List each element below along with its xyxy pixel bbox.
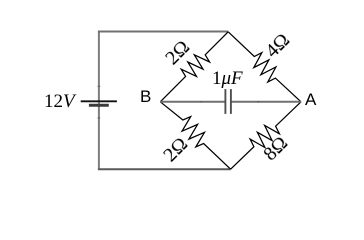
wire left rail vertical [98, 31, 100, 169]
capacitor C1 left plate [224, 89, 226, 114]
label 2ohm (resistor R3 value) [159, 133, 193, 167]
wire junction dot right bridge wire [258, 101, 260, 103]
resistor R2 4ohm (top node to A) [228, 32, 301, 102]
wire junction dot left bridge wire [201, 101, 203, 103]
wire junction tick upper battery lead [98, 85, 101, 87]
wire top horizontal [98, 31, 228, 33]
capacitor C1 right plate [230, 89, 232, 114]
battery V1 top plate (long) [81, 100, 117, 102]
label 1uF (capacitor value) [212, 68, 243, 90]
battery V1 bottom plate (short thick) [89, 104, 109, 107]
resistor R4 8ohm (bottom node to A) [231, 102, 301, 169]
label 2ohm (resistor R1 value) [161, 36, 195, 70]
wire B to capacitor [160, 101, 225, 103]
node A label [305, 90, 316, 110]
label 8ohm (resistor R4 value) [259, 132, 293, 166]
label 4ohm (resistor R2 value) [261, 29, 295, 63]
wire junction tick lower battery lead [98, 117, 101, 119]
resistor R1 2ohm (B to top node) [160, 32, 228, 102]
label 12V (battery value) [44, 91, 75, 113]
resistor R3 2ohm (B to bottom node) [160, 102, 230, 169]
wire capacitor to A [231, 101, 301, 103]
node B label [140, 87, 151, 107]
wire bottom horizontal [98, 168, 231, 170]
